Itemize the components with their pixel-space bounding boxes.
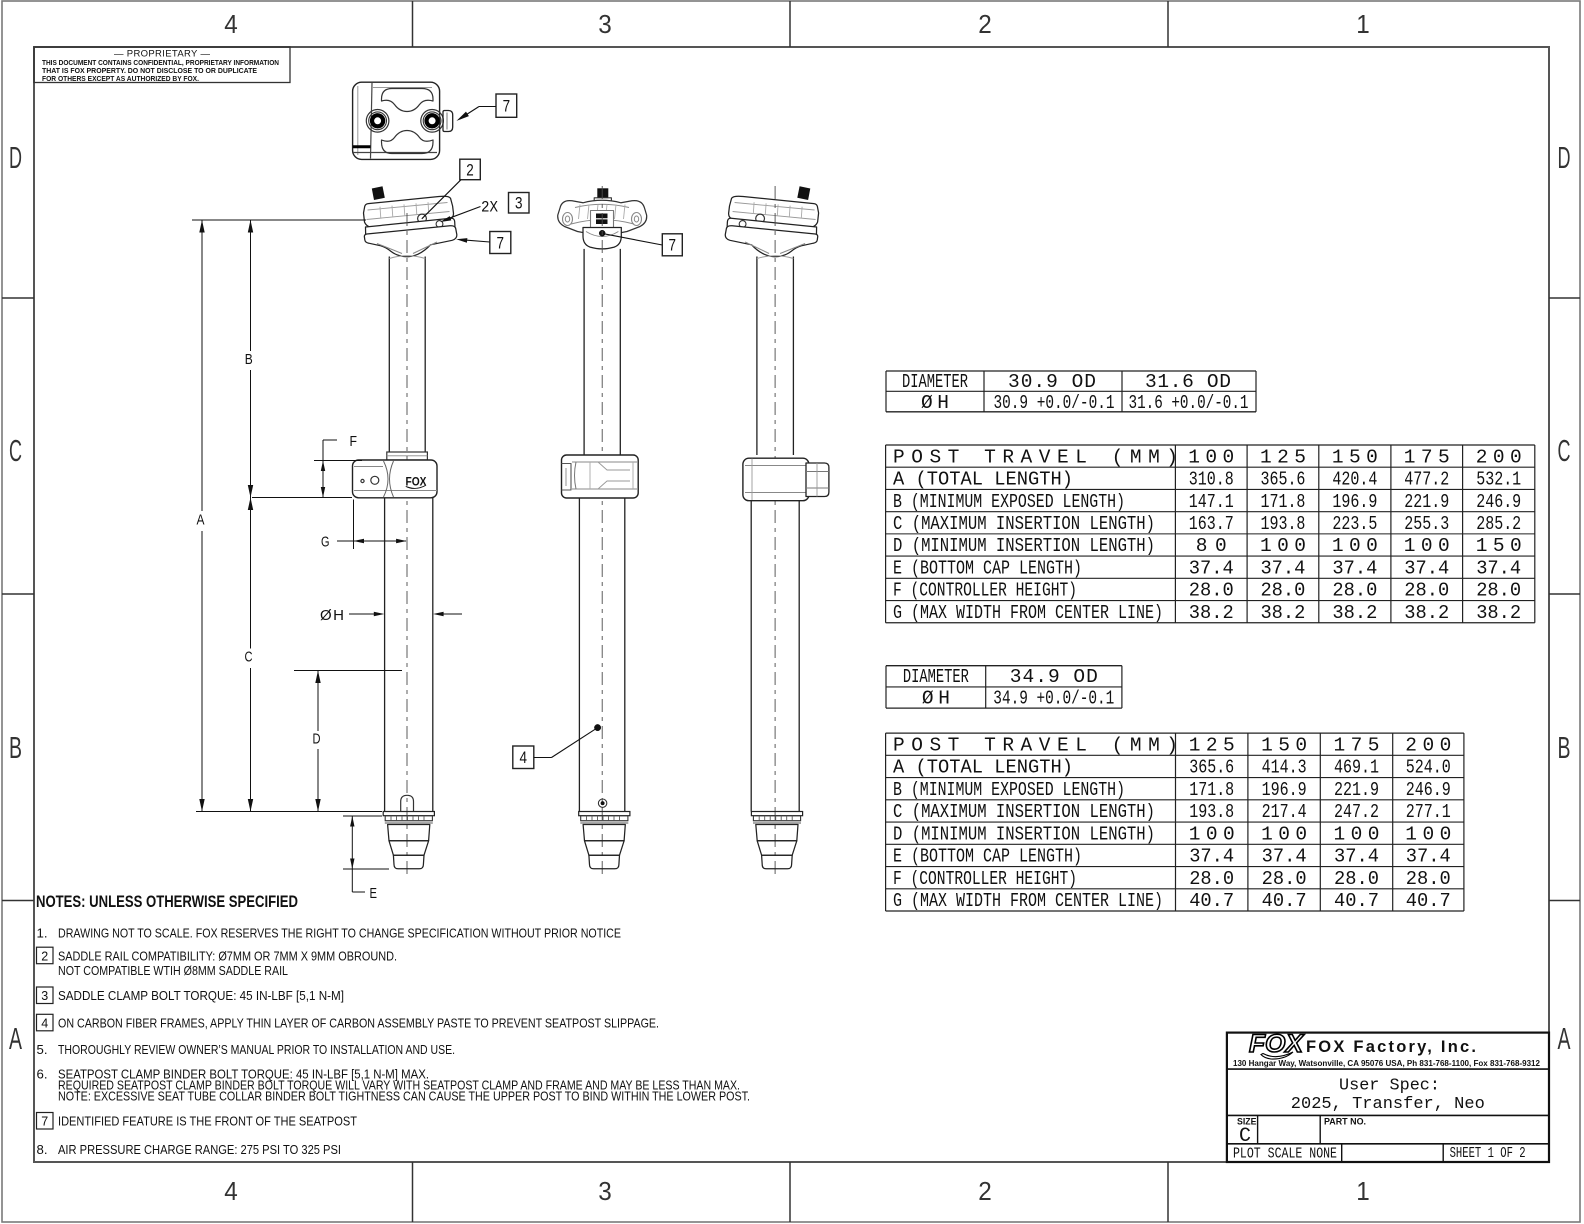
- svg-text:SHEET 1 OF 2: SHEET 1 OF 2: [1450, 1145, 1526, 1162]
- svg-text:2: 2: [978, 9, 992, 39]
- lower tube - side view: [751, 501, 799, 812]
- front-identifier tab on clamp (top detail): [443, 111, 453, 132]
- svg-text:277.1: 277.1: [1406, 801, 1451, 823]
- svg-text:38.2: 38.2: [1189, 602, 1234, 624]
- svg-text:125: 125: [1260, 446, 1306, 468]
- svg-text:414.3: 414.3: [1262, 757, 1307, 779]
- svg-text:196.9: 196.9: [1262, 779, 1307, 801]
- svg-text:5.: 5.: [37, 1042, 48, 1057]
- svg-text:E: E: [370, 885, 378, 902]
- svg-text:37.4: 37.4: [1332, 557, 1377, 579]
- upper tube - front view: [387, 256, 428, 460]
- seatpost back view - saddle clamp: [558, 188, 647, 234]
- svg-text:DRAWING NOT TO SCALE. FOX RESE: DRAWING NOT TO SCALE. FOX RESERVES THE R…: [58, 926, 621, 941]
- svg-text:37.4: 37.4: [1404, 557, 1449, 579]
- svg-text:28.0: 28.0: [1334, 868, 1379, 890]
- svg-text:171.8: 171.8: [1189, 779, 1234, 801]
- svg-text:100: 100: [1334, 823, 1380, 845]
- svg-text:163.7: 163.7: [1189, 513, 1234, 535]
- svg-text:147.1: 147.1: [1189, 491, 1234, 513]
- svg-text:3: 3: [515, 195, 523, 213]
- svg-text:125: 125: [1189, 734, 1235, 756]
- saddle rail ends - back view: [563, 213, 642, 226]
- svg-text:171.8: 171.8: [1260, 491, 1305, 513]
- saddle clamp head - side view: [364, 186, 457, 256]
- svg-text:A: A: [197, 511, 205, 528]
- controller collar - side view: [743, 458, 829, 501]
- svg-text:285.2: 285.2: [1476, 513, 1521, 535]
- svg-text:365.6: 365.6: [1260, 469, 1305, 491]
- svg-text:PART NO.: PART NO.: [1324, 1117, 1366, 1127]
- svg-text:2: 2: [41, 949, 48, 963]
- svg-text:1.: 1.: [37, 926, 48, 941]
- svg-text:2025, Transfer, Neo: 2025, Transfer, Neo: [1291, 1095, 1485, 1114]
- svg-text:C: C: [245, 649, 253, 666]
- svg-text:PLOT SCALE NONE: PLOT SCALE NONE: [1233, 1146, 1337, 1163]
- diameter table 34.9: [886, 666, 1122, 710]
- svg-text:532.1: 532.1: [1476, 469, 1521, 491]
- svg-text:F (CONTROLLER HEIGHT): F (CONTROLLER HEIGHT): [893, 580, 1077, 602]
- dimension E (bottom cap length): [343, 816, 389, 902]
- title block: [1227, 1033, 1549, 1162]
- svg-text:246.9: 246.9: [1476, 491, 1521, 513]
- svg-text:28.0: 28.0: [1189, 580, 1234, 602]
- svg-text:7: 7: [41, 1115, 48, 1129]
- callout 4 - carbon paste note leader: [513, 724, 601, 768]
- svg-text:30.9 +0.0/-0.1: 30.9 +0.0/-0.1: [994, 392, 1115, 414]
- svg-text:221.9: 221.9: [1404, 491, 1449, 513]
- svg-text:37.4: 37.4: [1334, 846, 1379, 868]
- svg-text:28.0: 28.0: [1189, 868, 1234, 890]
- svg-text:E (BOTTOM CAP LENGTH): E (BOTTOM CAP LENGTH): [893, 846, 1082, 868]
- svg-text:37.4: 37.4: [1189, 846, 1234, 868]
- svg-text:D: D: [313, 731, 321, 748]
- svg-text:NOTE: EXCESSIVE SEAT TUBE COLL: NOTE: EXCESSIVE SEAT TUBE COLLAR BINDER …: [58, 1089, 750, 1104]
- front feature dot + leader (callout 7 back view): [599, 230, 682, 256]
- drawing title: [1291, 1077, 1485, 1115]
- svg-text:221.9: 221.9: [1334, 779, 1379, 801]
- size field: [1237, 1117, 1257, 1149]
- svg-text:38.2: 38.2: [1260, 602, 1305, 624]
- dimension A (total length): [192, 220, 382, 812]
- svg-text:100: 100: [1189, 823, 1235, 845]
- seatpost head - back view: [583, 228, 621, 249]
- svg-text:255.3: 255.3: [1404, 513, 1449, 535]
- svg-text:D (MINIMUM INSERTION LENGTH): D (MINIMUM INSERTION LENGTH): [893, 823, 1155, 845]
- centerline - front view: [406, 213, 408, 879]
- svg-text:3: 3: [41, 989, 48, 1003]
- svg-text:E (BOTTOM CAP LENGTH): E (BOTTOM CAP LENGTH): [893, 557, 1082, 579]
- svg-text:246.9: 246.9: [1406, 779, 1451, 801]
- svg-text:193.8: 193.8: [1189, 801, 1234, 823]
- svg-text:310.8: 310.8: [1189, 469, 1234, 491]
- svg-text:100: 100: [1404, 535, 1450, 557]
- svg-text:C (MAXIMUM INSERTION LENGTH): C (MAXIMUM INSERTION LENGTH): [893, 513, 1155, 535]
- svg-text:A (TOTAL LENGTH): A (TOTAL LENGTH): [893, 757, 1073, 779]
- svg-text:NOT COMPATIBLE WTIH Ø8MM SADDL: NOT COMPATIBLE WTIH Ø8MM SADDLE RAIL: [58, 963, 288, 978]
- svg-text:217.4: 217.4: [1262, 801, 1307, 823]
- svg-text:3: 3: [598, 1176, 612, 1206]
- svg-text:SADDLE RAIL COMPATIBILITY: Ø7M: SADDLE RAIL COMPATIBILITY: Ø7MM OR 7MM X…: [58, 948, 397, 963]
- svg-text:28.0: 28.0: [1260, 580, 1305, 602]
- svg-text:NOTES: UNLESS OTHERWISE SPECIF: NOTES: UNLESS OTHERWISE SPECIFIED: [36, 892, 298, 911]
- FOX logo: [1249, 1030, 1304, 1059]
- svg-text:175: 175: [1334, 734, 1380, 756]
- svg-text:100: 100: [1405, 823, 1451, 845]
- svg-text:ON CARBON FIBER FRAMES, APPLY: ON CARBON FIBER FRAMES, APPLY THIN LAYER…: [58, 1016, 659, 1031]
- centerline - side view: [774, 186, 776, 879]
- svg-text:100: 100: [1188, 446, 1234, 468]
- svg-text:28.0: 28.0: [1476, 580, 1521, 602]
- actuator bolt at tube bottom - back view: [598, 799, 606, 807]
- svg-text:4: 4: [224, 1176, 238, 1206]
- bottom cap - side view: [751, 812, 802, 869]
- svg-text:34.9 OD: 34.9 OD: [1010, 666, 1098, 688]
- clamp center bolt - back view: [591, 211, 614, 229]
- controller collar - back view: [562, 455, 639, 498]
- seatpost front view - saddle clamp top detail: [353, 82, 440, 159]
- svg-text:150: 150: [1332, 446, 1378, 468]
- seatpost side view - saddle clamp head: [725, 186, 818, 256]
- svg-text:2: 2: [978, 1176, 992, 1206]
- svg-text:C: C: [9, 433, 22, 468]
- centerline - back view: [601, 186, 603, 879]
- svg-text:THOROUGHLY REVIEW OWNER’S MANU: THOROUGHLY REVIEW OWNER’S MANUAL PRIOR T…: [58, 1042, 455, 1057]
- svg-text:196.9: 196.9: [1332, 491, 1377, 513]
- svg-text:D: D: [1558, 140, 1571, 175]
- svg-text:365.6: 365.6: [1189, 757, 1234, 779]
- svg-text:G (MAX WIDTH FROM CENTER LINE): G (MAX WIDTH FROM CENTER LINE): [893, 890, 1163, 912]
- svg-text:User Spec:: User Spec:: [1339, 1077, 1440, 1096]
- svg-text:G (MAX WIDTH FROM CENTER LINE): G (MAX WIDTH FROM CENTER LINE): [893, 602, 1163, 624]
- bottom cap - back view: [579, 812, 630, 869]
- svg-text:7: 7: [503, 98, 511, 116]
- lower tube - front view: [385, 498, 433, 812]
- svg-text:37.4: 37.4: [1476, 557, 1521, 579]
- svg-text:100: 100: [1332, 535, 1378, 557]
- keyhole slot at tube bottom - front view: [401, 795, 414, 811]
- post travel table 30.9/31.6: [886, 445, 1535, 624]
- svg-text:C: C: [1558, 433, 1571, 468]
- upper tube - back view: [584, 249, 620, 455]
- svg-text:150: 150: [1261, 734, 1307, 756]
- upper tube - side view: [757, 256, 794, 455]
- svg-text:B: B: [245, 351, 253, 368]
- svg-text:37.4: 37.4: [1260, 557, 1305, 579]
- svg-text:31.6 +0.0/-0.1: 31.6 +0.0/-0.1: [1129, 392, 1249, 414]
- dimension F (controller height): [314, 433, 362, 498]
- callout 2X 3 - saddle clamp bolts: [440, 193, 529, 223]
- svg-text:28.0: 28.0: [1332, 580, 1377, 602]
- svg-text:130 Hangar Way, Watsonville, C: 130 Hangar Way, Watsonville, CA 95076 US…: [1233, 1058, 1540, 1068]
- saddle clamp bolt right (top detail): [421, 110, 444, 133]
- dimension G (max width from center line): [321, 500, 407, 551]
- svg-text:D: D: [9, 140, 22, 175]
- svg-text:38.2: 38.2: [1332, 602, 1377, 624]
- svg-text:30.9 OD: 30.9 OD: [1008, 371, 1096, 393]
- svg-text:469.1: 469.1: [1334, 757, 1379, 779]
- svg-text:DIAMETER: DIAMETER: [902, 371, 968, 393]
- svg-text:247.2: 247.2: [1334, 801, 1379, 823]
- svg-text:SADDLE CLAMP BOLT TORQUE: 45 I: SADDLE CLAMP BOLT TORQUE: 45 IN-LBF [5,1…: [58, 988, 344, 1003]
- svg-text:B: B: [9, 730, 22, 765]
- svg-text:477.2: 477.2: [1404, 469, 1449, 491]
- svg-text:200: 200: [1405, 734, 1451, 756]
- svg-text:G: G: [321, 534, 330, 551]
- svg-text:150: 150: [1476, 535, 1522, 557]
- svg-text:38.2: 38.2: [1404, 602, 1449, 624]
- svg-text:40.7: 40.7: [1189, 890, 1234, 912]
- diameter table 30.9/31.6: [886, 371, 1256, 414]
- svg-text:7: 7: [497, 234, 505, 252]
- svg-text:193.8: 193.8: [1260, 513, 1305, 535]
- callout 7 - top detail: [457, 94, 517, 121]
- FOX logo on collar: [406, 477, 427, 489]
- svg-text:100: 100: [1260, 535, 1306, 557]
- dimension H (tube diameter): [320, 607, 462, 624]
- svg-text:40.7: 40.7: [1334, 890, 1379, 912]
- svg-text:AIR PRESSURE CHARGE RANGE: 275: AIR PRESSURE CHARGE RANGE: 275 PSI TO 32…: [58, 1142, 341, 1157]
- svg-text:4: 4: [520, 749, 528, 767]
- controller collar - front view: [353, 460, 438, 498]
- svg-text:420.4: 420.4: [1332, 469, 1377, 491]
- svg-text:37.4: 37.4: [1262, 846, 1307, 868]
- svg-text:100: 100: [1261, 823, 1307, 845]
- saddle clamp bolt left (top detail): [366, 110, 389, 133]
- svg-text:2: 2: [466, 161, 474, 179]
- svg-text:B (MINIMUM EXPOSED LENGTH): B (MINIMUM EXPOSED LENGTH): [893, 779, 1125, 801]
- dimension B (minimum exposed length): [245, 220, 253, 498]
- svg-text:2X: 2X: [481, 199, 499, 217]
- bottom cap - front view: [383, 812, 434, 869]
- lower tube - back view: [579, 498, 624, 812]
- post travel table 34.9: [886, 733, 1464, 912]
- svg-text:1: 1: [1356, 1176, 1370, 1206]
- svg-text:4: 4: [224, 9, 238, 39]
- svg-text:175: 175: [1404, 446, 1450, 468]
- svg-text:FOX: FOX: [1249, 1030, 1304, 1058]
- svg-text:38.2: 38.2: [1476, 602, 1521, 624]
- svg-text:28.0: 28.0: [1406, 868, 1451, 890]
- proprietary notice box: [34, 47, 290, 83]
- svg-text:B (MINIMUM EXPOSED LENGTH): B (MINIMUM EXPOSED LENGTH): [893, 491, 1125, 513]
- svg-text:7: 7: [669, 237, 677, 255]
- dimension D (minimum insertion length): [294, 671, 402, 812]
- svg-text:34.9 +0.0/-0.1: 34.9 +0.0/-0.1: [993, 688, 1114, 710]
- svg-text:6.: 6.: [37, 1067, 48, 1082]
- notes list: [37, 926, 751, 1157]
- svg-text:40.7: 40.7: [1406, 890, 1451, 912]
- svg-text:31.6 OD: 31.6 OD: [1145, 371, 1231, 393]
- svg-text:D (MINIMUM INSERTION LENGTH): D (MINIMUM INSERTION LENGTH): [893, 535, 1155, 557]
- dimension C (maximum insertion length): [245, 498, 353, 812]
- svg-text:C (MAXIMUM INSERTION LENGTH): C (MAXIMUM INSERTION LENGTH): [893, 801, 1155, 823]
- svg-text:8.: 8.: [37, 1142, 48, 1157]
- svg-text:37.4: 37.4: [1406, 846, 1451, 868]
- svg-text:4: 4: [41, 1017, 48, 1031]
- svg-text:FOR OTHERS EXCEPT AS AUTHORIZE: FOR OTHERS EXCEPT AS AUTHORIZED BY FOX.: [42, 74, 199, 83]
- svg-text:3: 3: [598, 9, 612, 39]
- svg-text:1: 1: [1356, 9, 1370, 39]
- svg-text:200: 200: [1476, 446, 1522, 468]
- svg-text:524.0: 524.0: [1406, 757, 1451, 779]
- svg-text:28.0: 28.0: [1262, 868, 1307, 890]
- svg-text:A (TOTAL LENGTH): A (TOTAL LENGTH): [893, 469, 1073, 491]
- svg-text:40.7: 40.7: [1262, 890, 1307, 912]
- callout 2 - saddle rail: [422, 159, 481, 219]
- svg-text:A: A: [9, 1021, 22, 1056]
- svg-text:IDENTIFIED FEATURE IS THE FRON: IDENTIFIED FEATURE IS THE FRONT OF THE S…: [58, 1114, 357, 1129]
- svg-text:B: B: [1558, 730, 1571, 765]
- svg-text:223.5: 223.5: [1332, 513, 1377, 535]
- callout 7 - head front feature: [456, 232, 511, 254]
- svg-text:DIAMETER: DIAMETER: [903, 666, 969, 688]
- svg-text:F (CONTROLLER HEIGHT): F (CONTROLLER HEIGHT): [893, 868, 1077, 890]
- svg-text:28.0: 28.0: [1404, 580, 1449, 602]
- svg-text:F: F: [350, 433, 358, 450]
- svg-text:A: A: [1558, 1021, 1571, 1056]
- svg-text:37.4: 37.4: [1189, 557, 1234, 579]
